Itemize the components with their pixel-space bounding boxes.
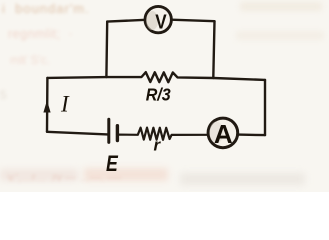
current arrow I [43, 100, 50, 112]
voltmeter U=V [145, 6, 171, 33]
wire: ammeter to right vertical [238, 133, 265, 136]
svg-text:r: r [154, 136, 162, 155]
wire: top rail right of voltmeter [171, 20, 214, 22]
svg-text:R/3: R/3 [146, 84, 171, 104]
battery E: short plate [116, 126, 119, 141]
wire: battery to resistor r zigzag, zigzag, then wire into ammeter [117, 128, 206, 140]
svg-text:E: E [106, 151, 119, 176]
wire: top rail left of voltmeter [107, 20, 145, 22]
wire: left vertical of main loop [46, 78, 49, 132]
battery E: long plate [107, 119, 110, 142]
svg-text:V: V [155, 10, 167, 33]
wire: upper-right vertical (top rail to middle rail) [213, 21, 214, 78]
faint print-through artifacts (decorative) [2, 1, 90, 16]
wire: right vertical of main loop [264, 80, 266, 135]
svg-text:I: I [60, 92, 70, 117]
wire: upper-left vertical (top rail to middle rail) [105, 22, 108, 78]
wire: middle rail with resistor R/3 zigzag [47, 72, 265, 82]
svg-text:A: A [214, 119, 233, 149]
wire: bottom rail, left segment to battery [47, 132, 107, 135]
ammeter U=A [208, 118, 238, 149]
